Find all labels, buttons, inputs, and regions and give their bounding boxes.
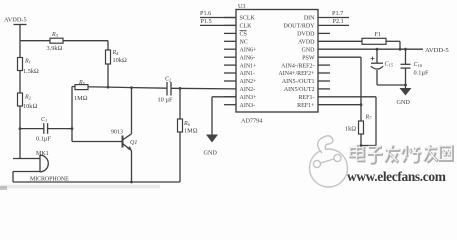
svg-text:AIN3+: AIN3+ [240, 95, 258, 101]
svg-text:10kΩ: 10kΩ [23, 103, 37, 110]
wire feedback down to base node [71, 87, 73, 142]
svg-text:AVDD: AVDD [298, 40, 315, 46]
svg-text:AVDD-5: AVDD-5 [425, 47, 449, 54]
node R6 top junction [179, 87, 182, 90]
svg-text:P1.7: P1.7 [332, 10, 343, 17]
svg-text:10 µF: 10 µF [158, 97, 173, 104]
svg-text:AVDD-5: AVDD-5 [4, 17, 27, 24]
ground (left of IC, AIN3+) [204, 97, 237, 157]
node left column C1 junction [19, 127, 22, 130]
svg-text:0.1µF: 0.1µF [414, 70, 429, 77]
IC left pin labels [240, 16, 258, 109]
capacitor C16 0.1uF [401, 49, 429, 85]
svg-text:10kΩ: 10kΩ [113, 57, 127, 64]
transistor Q1 9013 [111, 88, 137, 182]
svg-text:C2: C2 [165, 77, 172, 83]
svg-text:C16: C16 [414, 62, 423, 68]
svg-text:9013: 9013 [111, 129, 123, 135]
resistor R4 10k (middle vertical) [106, 50, 127, 64]
svg-text:AIN1+: AIN1+ [240, 63, 258, 69]
wire cap bottoms [377, 84, 406, 86]
svg-text:AIN3-: AIN3- [240, 103, 256, 109]
svg-text:AIN6+: AIN6+ [240, 47, 258, 53]
resistor R3 3.9k (top horizontal) [47, 32, 64, 52]
svg-text:3.9kΩ: 3.9kΩ [47, 45, 63, 52]
IC right pin stubs [318, 33, 330, 89]
node R4/wire junction [107, 86, 110, 89]
svg-text:P1.5: P1.5 [201, 18, 212, 25]
svg-text:AIN2+: AIN2+ [240, 79, 258, 85]
resistor R2 10k (left) [18, 93, 38, 110]
wire PSW down [318, 57, 361, 121]
svg-text:REF1+: REF1+ [297, 103, 315, 109]
svg-text:P2.1: P2.1 [333, 18, 344, 25]
wire amp output horizontal (left part) [72, 87, 167, 89]
IC U3 AD7794 [236, 4, 318, 124]
svg-text:C15: C15 [385, 62, 394, 68]
svg-text:CS: CS [240, 32, 247, 38]
svg-text:1.5kΩ: 1.5kΩ [23, 68, 39, 75]
svg-text:GND: GND [204, 149, 218, 156]
svg-text:R7: R7 [365, 115, 373, 121]
svg-text:AIN1-: AIN1- [240, 71, 256, 77]
node P1.7 wire DIN [318, 10, 349, 18]
wire R4 bottom to node [107, 64, 109, 87]
svg-text:R6: R6 [183, 121, 191, 127]
wire amp output horizontal (right part to IC) [171, 87, 236, 90]
svg-text:AIN4-/REF2-: AIN4-/REF2- [281, 63, 314, 69]
capacitor C15 (polarized) [371, 49, 394, 85]
svg-text:AIN5-/OUT1: AIN5-/OUT1 [282, 79, 315, 85]
wire bottom rail [13, 181, 180, 183]
svg-text:GND: GND [302, 47, 316, 53]
wire from 3.9k corner down to R4 [107, 41, 109, 50]
wire base lead [72, 141, 123, 143]
svg-text:SCLK: SCLK [240, 16, 256, 22]
resistor R7 1k [345, 115, 372, 146]
svg-text:AIN4+/REF2+: AIN4+/REF2+ [278, 71, 315, 77]
microphone MK1 [13, 151, 69, 183]
fuse F1 on AVDD [318, 31, 400, 49]
wire REF1- loop [318, 97, 376, 147]
svg-text:REF1-: REF1- [298, 95, 314, 101]
svg-text:R4: R4 [112, 50, 120, 56]
svg-text:DOUT/RDY: DOUT/RDY [284, 24, 316, 30]
svg-text:R3: R3 [51, 32, 59, 38]
svg-text:P1.6: P1.6 [200, 10, 211, 17]
resistor R5 1M (horizontal feedback) [74, 80, 88, 102]
svg-text:F1: F1 [375, 31, 382, 38]
svg-text:1MΩ: 1MΩ [74, 95, 88, 102]
svg-text:C1: C1 [41, 117, 47, 123]
svg-text:AD7794: AD7794 [241, 117, 262, 124]
node emitter rail junction [130, 181, 133, 184]
resistor R6 1M (vertical) [178, 88, 198, 182]
node P1.6 wire SCLK [200, 10, 236, 18]
IC left pin stubs [224, 18, 236, 105]
svg-text:Q1: Q1 [130, 140, 137, 146]
svg-text:DVDD: DVDD [297, 32, 315, 38]
capacitor C2 10uF [158, 77, 173, 104]
svg-text:AIN5/OUT2: AIN5/OUT2 [284, 87, 315, 93]
svg-text:NC: NC [240, 40, 248, 46]
svg-text:0.1µF: 0.1µF [36, 136, 51, 143]
scan smudge bottom [0, 185, 160, 189]
watermark logo [310, 136, 348, 187]
ground (right, caps) [397, 85, 412, 106]
wire AVDD-5 rail (right) [318, 47, 449, 54]
svg-text:PSW: PSW [302, 55, 315, 61]
node C1 junction [71, 127, 74, 130]
node collector junction [130, 86, 133, 89]
resistor R1 1.5k [18, 58, 40, 76]
svg-text:GND: GND [397, 99, 411, 106]
svg-text:R1: R1 [24, 59, 31, 65]
power AVDD-5 (top left) [4, 17, 27, 41]
wire REF1+ [318, 103, 362, 106]
svg-text:R2: R2 [24, 95, 32, 101]
svg-text:AIN2-: AIN2- [240, 87, 256, 93]
svg-text:R5: R5 [78, 80, 86, 86]
svg-text:www.elecfans.com: www.elecfans.com [347, 169, 446, 184]
capacitor C1 0.1uF [20, 117, 72, 143]
node P1.5 wire CLK [200, 18, 236, 26]
svg-text:1MΩ: 1MΩ [184, 128, 198, 135]
svg-text:CLK: CLK [240, 24, 253, 30]
wire left column [19, 41, 21, 159]
svg-text:U3: U3 [238, 4, 245, 10]
svg-text:DIN: DIN [304, 16, 315, 22]
wire top horizontal [20, 40, 108, 42]
svg-text:1kΩ: 1kΩ [345, 126, 356, 133]
svg-text:AIN6-: AIN6- [240, 55, 256, 61]
node P2.1 wire DOUT [318, 18, 349, 26]
IC right pin labels [278, 16, 315, 109]
